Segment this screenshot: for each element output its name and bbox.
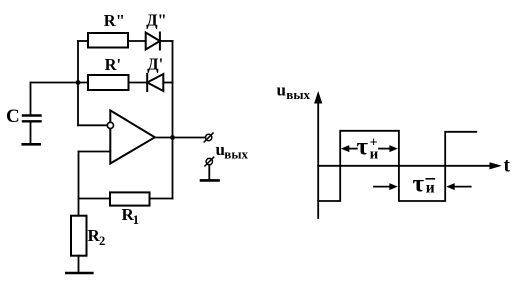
- label u_vyh (circuit output): [216, 140, 249, 162]
- svg-text:τ: τ: [357, 134, 369, 161]
- resistor R': [88, 75, 129, 90]
- ground (below common terminal): [201, 179, 219, 182]
- wire: right rail vertical: [172, 41, 174, 199]
- wire: left vertical between R'' and R' branches: [77, 41, 79, 83]
- axis: u_vyh vertical: [314, 91, 322, 218]
- svg-text:R': R': [105, 55, 122, 74]
- ground (below C): [23, 143, 40, 146]
- wire: top branch to R'': [78, 40, 88, 42]
- svg-text:t: t: [504, 155, 511, 176]
- junction: output node: [170, 135, 175, 140]
- diode D'': [146, 33, 160, 50]
- wire: diode to right rail: [160, 40, 173, 42]
- wire: R' to diode D': [129, 82, 148, 84]
- resistor R1: [110, 192, 150, 205]
- label tau_i+: [357, 134, 379, 163]
- capacitor C: [23, 116, 41, 122]
- dimension arrow tau+ right: [379, 145, 398, 152]
- diode D': [147, 74, 163, 91]
- wire: R2 to ground: [78, 256, 80, 272]
- junction: inverting node: [76, 80, 81, 85]
- axis: t horizontal: [318, 162, 502, 169]
- wire: R1 to right rail: [150, 198, 173, 200]
- wire: to op-amp inverting input: [78, 124, 107, 126]
- wire: node to capacitor: [30, 83, 32, 115]
- op-amp U1: [107, 110, 155, 163]
- svg-text:Д": Д": [146, 10, 167, 29]
- dimension arrow tau- right (pointing left): [446, 183, 471, 190]
- ground (below R2): [66, 272, 92, 275]
- svg-text:u: u: [277, 81, 286, 100]
- wire: common terminal to ground: [208, 165, 210, 180]
- label tau_i-: [413, 171, 435, 198]
- waveform u_vyh(t): [318, 131, 476, 201]
- label R2: [88, 226, 106, 248]
- label R1: [122, 205, 140, 227]
- wire: feedback node to R1: [79, 198, 111, 200]
- svg-text:и: и: [370, 147, 379, 163]
- wire: capacitor to ground: [30, 122, 32, 144]
- wire: inverting input drop: [77, 83, 79, 126]
- svg-text:вых: вых: [286, 87, 310, 102]
- wire: non-inverting input: [79, 151, 111, 153]
- svg-text:2: 2: [99, 234, 105, 248]
- svg-text:вых: вых: [224, 147, 248, 162]
- resistor R'': [88, 33, 128, 48]
- wire: op-amp output: [155, 137, 206, 139]
- label u_vyh (axis): [277, 81, 311, 103]
- svg-text:Д': Д': [147, 54, 163, 73]
- dimension arrow tau- left (pointing right): [374, 183, 398, 190]
- wire: capacitor node horizontal: [31, 82, 89, 84]
- svg-text:и: и: [426, 179, 435, 196]
- svg-text:R": R": [104, 11, 125, 30]
- wire: R'' to diode: [128, 40, 146, 42]
- wire: diode D' to right rail: [163, 82, 172, 84]
- wire: feedback left vertical: [78, 152, 80, 216]
- svg-text:τ: τ: [413, 171, 425, 198]
- dimension arrow tau+ left: [341, 145, 357, 152]
- svg-text:1: 1: [133, 213, 139, 227]
- svg-text:C: C: [6, 106, 20, 127]
- resistor R2: [71, 216, 87, 256]
- terminal: output: [204, 133, 213, 142]
- terminal: common: [205, 157, 214, 166]
